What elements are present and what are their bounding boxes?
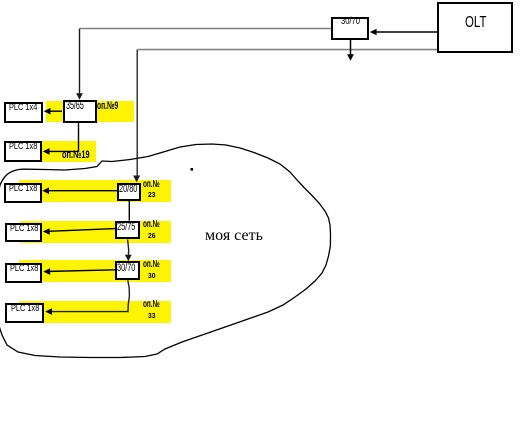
- arrow 35/65 to PLC1x4: [46, 110, 62, 112]
- wire vertical down into 35/65: [79, 29, 81, 95]
- yellow band op26: [20, 221, 171, 243]
- wire 30/70 bottom to row4 PLC: [49, 280, 130, 311]
- wire gray horizontal from OLT bottom to corner: [138, 49, 438, 51]
- arrowhead into 20/80 top: [133, 176, 140, 183]
- yellow band op9: [46, 101, 134, 122]
- splitter 35/65: [63, 100, 97, 123]
- yellow band op33: [19, 301, 171, 323]
- blob outline (моя сеть network boundary): [0, 144, 331, 358]
- row3 arrow 30/70 to PLC: [46, 270, 116, 272]
- text moya set: [205, 228, 263, 244]
- splitter 30/70 top: [331, 17, 369, 40]
- row 3: PLC 1x8: [5, 263, 42, 283]
- PLC 1x4 box: [4, 102, 43, 123]
- row1 arrow 20/80 to PLC: [46, 190, 118, 192]
- label op.no19: [62, 150, 90, 161]
- row2 arrow 25/75 to PLC: [46, 229, 116, 232]
- row 3 splitter 30/70: [115, 261, 139, 280]
- wire 20/80 bottom to 25/75 top: [128, 201, 130, 221]
- row 2: PLC 1x8: [5, 223, 42, 243]
- PLC 1x8 box op19: [4, 141, 42, 162]
- arrow OLT to 30/70-top: [373, 31, 437, 33]
- yellow band op30: [19, 260, 171, 282]
- row 1: PLC 1x8: [4, 183, 42, 203]
- arrow down from 30/70-top: [350, 40, 352, 56]
- row 3 label op.no 30: [143, 260, 160, 270]
- stray dot: [191, 168, 194, 171]
- row 1 splitter 20/80: [117, 183, 141, 201]
- wire 25/75 bottom to 30/70 arrow: [128, 239, 129, 256]
- wire vertical down to 20/80: [136, 50, 138, 176]
- wire 35/65 bottom to PLC1x8 op19: [46, 123, 79, 151]
- row 2 label op.no 26: [143, 220, 160, 230]
- row 4 label op.no 33: [143, 300, 160, 310]
- wire gray horizontal from 30/70-top to corner above 35/65: [80, 28, 331, 30]
- yellow band op23: [19, 180, 171, 202]
- arrowhead into 35/65: [76, 93, 83, 100]
- row 4: PLC 1x8: [5, 303, 43, 323]
- label op.no9: [97, 101, 118, 112]
- row 1 label op.no 23: [143, 180, 160, 190]
- OLT box: [437, 2, 513, 53]
- yellow band op19: [42, 141, 96, 162]
- row 2 splitter 25/75: [115, 221, 139, 240]
